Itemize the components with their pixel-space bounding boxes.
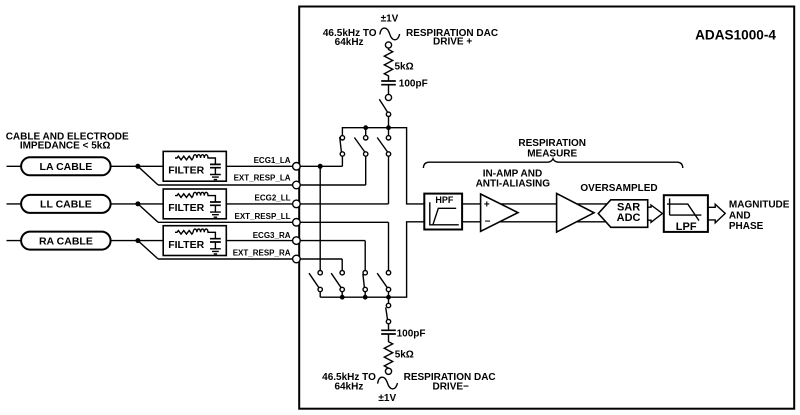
svg-text:LL CABLE: LL CABLE [40, 199, 92, 211]
svg-text:DRIVE−: DRIVE− [432, 381, 469, 392]
svg-text:EXT_RESP_LL: EXT_RESP_LL [234, 212, 290, 221]
svg-text:HPF: HPF [435, 195, 454, 205]
svg-text:MEASURE: MEASURE [527, 148, 577, 159]
svg-text:MAGNITUDE: MAGNITUDE [729, 200, 790, 211]
svg-text:100pF: 100pF [399, 79, 428, 90]
svg-text:−: − [485, 216, 491, 227]
svg-text:EXT_RESP_LA: EXT_RESP_LA [234, 173, 291, 182]
svg-text:ECG2_LL: ECG2_LL [254, 194, 290, 203]
svg-text:ECG3_RA: ECG3_RA [253, 231, 291, 240]
svg-text:FILTER: FILTER [168, 202, 204, 214]
svg-text:5kΩ: 5kΩ [395, 350, 414, 361]
svg-text:5kΩ: 5kΩ [395, 62, 414, 73]
svg-text:100pF: 100pF [397, 329, 426, 340]
svg-text:OVERSAMPLED: OVERSAMPLED [580, 183, 657, 194]
svg-text:RA CABLE: RA CABLE [39, 235, 93, 247]
svg-text:FILTER: FILTER [168, 239, 204, 251]
svg-text:+: + [484, 200, 490, 211]
svg-text:±1V: ±1V [381, 13, 399, 24]
svg-text:ADC: ADC [617, 212, 641, 224]
svg-text:IMPEDANCE < 5kΩ: IMPEDANCE < 5kΩ [20, 141, 111, 152]
svg-text:ECG1_LA: ECG1_LA [254, 156, 291, 165]
svg-text:PHASE: PHASE [729, 221, 764, 232]
svg-text:LPF: LPF [676, 221, 697, 233]
svg-text:EXT_RESP_RA: EXT_RESP_RA [233, 249, 291, 258]
svg-text:ADAS1000-4: ADAS1000-4 [695, 27, 776, 42]
svg-text:AND: AND [729, 211, 751, 222]
svg-text:64kHz: 64kHz [334, 381, 363, 392]
svg-text:64kHz: 64kHz [335, 37, 364, 48]
svg-text:±1V: ±1V [378, 393, 396, 404]
svg-text:DRIVE +: DRIVE + [433, 36, 472, 47]
svg-text:ANTI-ALIASING: ANTI-ALIASING [476, 178, 551, 189]
svg-text:FILTER: FILTER [168, 165, 204, 177]
svg-text:LA CABLE: LA CABLE [40, 161, 93, 173]
